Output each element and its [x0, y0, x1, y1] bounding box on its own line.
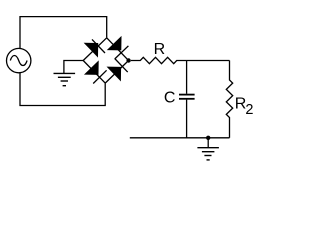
wire top rail from source to bridge top — [20, 17, 107, 49]
diode D1 upper-left (anode left, cathode top) — [83, 38, 107, 61]
diode D3 lower-left (anode left, cathode bottom) — [83, 61, 106, 84]
diode D2 upper-right (anode top, cathode right) — [107, 37, 129, 61]
resistor R zigzag with leads — [131, 57, 187, 63]
diode D4 lower-right (anode bottom, cathode right) — [105, 59, 128, 84]
AC source sine wave — [10, 55, 27, 65]
wire from R output node down to capacitor — [186, 61, 188, 94]
capacitor C plates — [179, 95, 195, 99]
node: ground junction dot — [206, 136, 210, 140]
svg-text:C: C — [164, 89, 176, 106]
ground stem (output reference) — [207, 138, 209, 148]
resistor R2 vertical zigzag with leads — [226, 61, 232, 138]
svg-text:2: 2 — [245, 102, 253, 118]
wire bridge left vertex to ground stem — [64, 61, 83, 74]
wire from capacitor bottom to rail — [186, 100, 188, 138]
wire from R output to top-right corner — [187, 60, 230, 62]
wire bottom rail — [130, 137, 230, 139]
svg-text:R: R — [154, 41, 166, 58]
ground symbol (bridge reference) — [54, 73, 76, 85]
AC source V1 circle — [7, 48, 31, 72]
node: bridge output junction dot — [126, 58, 130, 62]
ground symbol (output reference) — [197, 148, 219, 160]
wire bottom loop from source to bridge bottom — [20, 72, 105, 105]
